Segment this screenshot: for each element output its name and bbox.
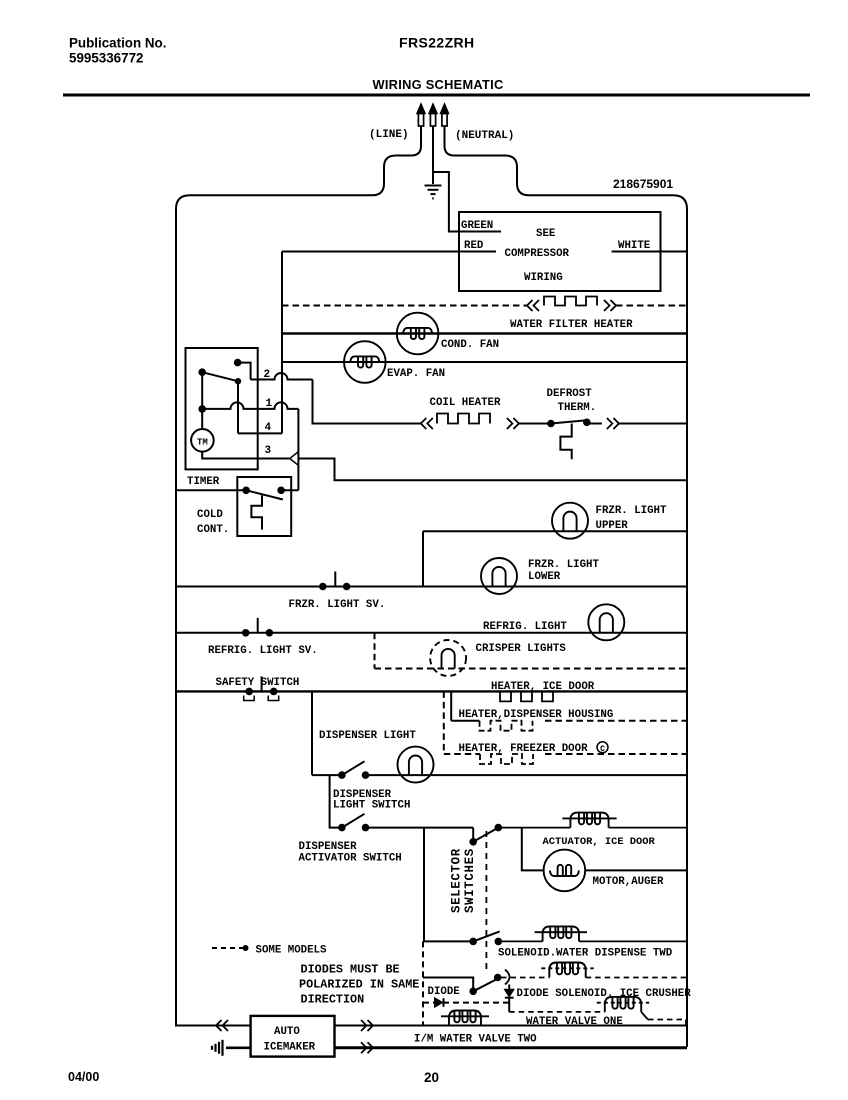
svg-text:ICEMAKER: ICEMAKER [264, 1042, 316, 1054]
wire: branch to selector switch 3 [423, 978, 473, 992]
svg-text:EVAP. FAN: EVAP. FAN [387, 368, 445, 380]
diode: horizontal [435, 998, 442, 1007]
wire: ice crusher row to bus (dashed) [586, 977, 687, 979]
coil: solenoid water dispense [535, 931, 587, 933]
wire: coil heater to defrost thermostat [519, 423, 551, 425]
svg-text:MOTOR,AUGER: MOTOR,AUGER [593, 876, 665, 888]
svg-text:I/M WATER VALVE TWO: I/M WATER VALVE TWO [414, 1034, 537, 1046]
ground symbol [425, 185, 442, 187]
svg-text:WIRING SCHEMATIC: WIRING SCHEMATIC [372, 77, 503, 92]
svg-text:COLD: COLD [197, 509, 223, 521]
timer motor TM [191, 429, 214, 452]
wire: water dispense coil to bus [579, 940, 687, 942]
freezer light switch [319, 583, 327, 591]
lamp: refrigerator light [588, 604, 624, 640]
wire: terminal 1 drop to cold control node [297, 409, 299, 490]
symbol circled C [597, 742, 608, 753]
wire: switch to dispenser light lamp [366, 774, 688, 776]
wire: pivot down to contact 1 [201, 372, 203, 409]
svg-text:COND. FAN: COND. FAN [441, 339, 499, 351]
wire: ice crusher row (dashed) [501, 977, 549, 979]
svg-text:ACTUATOR, ICE DOOR: ACTUATOR, ICE DOOR [543, 836, 656, 848]
safety switch [245, 688, 253, 696]
svg-text:COMPRESSOR: COMPRESSOR [505, 248, 570, 260]
plug left (line) prong [417, 104, 425, 114]
wire: selector feed drop [423, 828, 425, 942]
svg-text:FRZR. LIGHT: FRZR. LIGHT [596, 505, 668, 517]
wire: actuator coil to bus [609, 827, 687, 829]
svg-text:UPPER: UPPER [596, 520, 629, 532]
wire: defrost row to right bus [619, 423, 687, 425]
wire: freezer door heater row start (dashed) [444, 753, 480, 755]
wire: crisper row (dashed) [375, 668, 688, 670]
coil: ice crusher solenoid (dashed) [541, 967, 593, 969]
svg-text:3: 3 [265, 445, 272, 457]
svg-text:AUTO: AUTO [274, 1026, 300, 1038]
cold control bellows step symbol [251, 495, 262, 529]
cold control right contact dot [277, 487, 285, 495]
wire: freezer door row to bus (dashed) [545, 753, 687, 755]
lamp: freezer light upper [552, 503, 588, 539]
wire: motor auger branch [522, 828, 544, 871]
connector << coil heater [421, 418, 427, 429]
dispenser activator switch [338, 824, 346, 832]
lamp: crisper lights (dashed) [430, 640, 466, 676]
wire: left bus corner to icemaker [176, 1012, 251, 1026]
defrost thermostat left dot [547, 420, 555, 428]
svg-text:(NEUTRAL): (NEUTRAL) [455, 130, 514, 142]
svg-text:POLARIZED IN SAME: POLARIZED IN SAME [299, 978, 419, 992]
wire: upper row drop to lower row [422, 531, 424, 586]
wire: water dispense row [424, 940, 473, 942]
wire: line prong lead-in curve [372, 126, 421, 195]
wire: freezer lower light row [176, 586, 687, 588]
motor: evaporator fan [344, 341, 386, 383]
svg-text:DIODES MUST BE: DIODES MUST BE [301, 963, 400, 977]
wire: timer row 2 with hop over bus [251, 373, 313, 380]
svg-text:20: 20 [424, 1070, 439, 1085]
svg-text:TIMER: TIMER [187, 476, 220, 488]
connector >> valve two [361, 1042, 367, 1053]
svg-text:FRS22ZRH: FRS22ZRH [399, 35, 475, 51]
wire: row 3 jog to long return row [298, 459, 687, 481]
wire: timer row 1 with two hops [202, 402, 298, 409]
wire: white to right bus [612, 251, 687, 253]
coil: water valve one (dashed) [597, 1002, 649, 1004]
svg-text:218675901: 218675901 [613, 177, 673, 191]
svg-text:ACTIVATOR SWITCH: ACTIVATOR SWITCH [299, 853, 402, 865]
wire: vertical diode drop to water valve one (dashed) [508, 998, 510, 1012]
svg-text:GREEN: GREEN [461, 220, 493, 232]
wire: condenser fan row [282, 332, 687, 334]
svg-text:CRISPER LIGHTS: CRISPER LIGHTS [476, 643, 567, 655]
svg-text:REFRIG. LIGHT SV.: REFRIG. LIGHT SV. [208, 645, 318, 657]
svg-text:THERM.: THERM. [558, 402, 597, 414]
wire: right bus (neutral side) [686, 208, 688, 1047]
connector >> water filter [604, 300, 610, 311]
cold control box [237, 477, 291, 536]
selector switch 3 (ice crusher) [469, 988, 477, 996]
svg-text:DEFROST: DEFROST [547, 388, 593, 400]
wire: water valve one row (dashed) [509, 1011, 605, 1013]
svg-text:HEATER,DISPENSER HOUSING: HEATER,DISPENSER HOUSING [459, 709, 614, 721]
header rule [63, 94, 810, 97]
defrost bimetal step symbol [560, 424, 571, 460]
selector switch 2 (water dispense) [469, 938, 477, 946]
wire: left bus (line side) [175, 208, 177, 1026]
svg-text:C: C [600, 745, 605, 754]
wire: green branch to compressor [433, 172, 460, 232]
svg-text:WATER FILTER HEATER: WATER FILTER HEATER [510, 319, 633, 331]
resistor: heater ice door (teeth below row) [500, 691, 553, 701]
svg-text:LOWER: LOWER [528, 571, 561, 583]
svg-text:LIGHT SWITCH: LIGHT SWITCH [333, 800, 410, 812]
wire: drop to freezer door heater (dashed) [443, 691, 445, 754]
svg-text:Publication No.: Publication No. [69, 36, 166, 51]
wire: timer row 4 to bus [238, 432, 282, 434]
resistor: heater dispenser housing [480, 721, 533, 731]
svg-text:(LINE): (LINE) [369, 129, 409, 141]
svg-text:5995336772: 5995336772 [69, 51, 143, 66]
svg-text:DISPENSER: DISPENSER [299, 841, 358, 853]
svg-text:SAFETY SWITCH: SAFETY SWITCH [216, 677, 300, 689]
resistor: heater freezer door [480, 754, 533, 764]
plug middle ground prong [429, 104, 437, 114]
diode: vertical for ice crusher [505, 990, 514, 997]
wire: ground prong lead down [432, 126, 434, 184]
wire: neutral prong lead-in curve [445, 126, 530, 195]
dispenser light switch [338, 771, 346, 779]
svg-text:SEE: SEE [536, 228, 556, 240]
timer switch arm pivot dot [198, 368, 206, 376]
wire: contact 1 down to timer motor [201, 409, 203, 429]
wire: to dispenser light switch [312, 774, 342, 776]
svg-text:COIL HEATER: COIL HEATER [430, 397, 502, 409]
defrost thermostat right dot [583, 419, 591, 427]
wire: defrost to connector [587, 423, 602, 425]
connector << water filter [527, 300, 533, 311]
timer contact 2 dot [234, 359, 242, 367]
svg-text:SOME MODELS: SOME MODELS [256, 945, 328, 957]
wire: main outline top edge right of hump [529, 195, 687, 209]
wire: red feed [282, 251, 496, 253]
cold control switch arm [246, 490, 283, 499]
wire: drop from safety row to dispenser switches [311, 691, 313, 775]
wire: drop to dispenser housing heater [450, 691, 452, 720]
motor: auger [544, 850, 586, 892]
connector < on row 3 [290, 452, 298, 465]
wire: diode row (dashed) [423, 1002, 509, 1004]
connector arc on crusher row [505, 970, 510, 985]
selector switch 1 (ice door actuator) [469, 838, 477, 846]
wire: selector dashed drop to icemaker row [422, 941, 424, 1025]
connector >> defrost [607, 418, 613, 429]
wire: switch to water dispense coil [498, 940, 542, 942]
wire: selector mechanical link (dashed) [485, 831, 487, 974]
lamp: dispenser light [398, 747, 434, 783]
wire: feed bus down from red [281, 252, 283, 434]
wire: actuator coil row [498, 827, 570, 829]
plug right (neutral) prong [441, 104, 449, 114]
defrost thermostat arm [551, 420, 587, 423]
timer switch arm [202, 372, 238, 381]
refrigerator light switch [242, 629, 250, 637]
resistor: coil heater [437, 414, 490, 424]
wire: dispenser housing heater row start [451, 720, 479, 722]
coil: actuator ice door [562, 817, 616, 819]
wire: dispenser housing row to bus (dashed) [545, 720, 687, 722]
wire: safety switch row [176, 690, 687, 692]
coil: I/M water valve (on row one) [441, 1015, 489, 1017]
svg-text:DIODE SOLENOID. ICE CRUSHER: DIODE SOLENOID. ICE CRUSHER [517, 988, 692, 1000]
svg-text:FRZR. LIGHT: FRZR. LIGHT [528, 559, 600, 571]
compressor box SEE COMPRESSOR WIRING [459, 212, 661, 291]
wire: water valve one to bus (dashed) [641, 1012, 648, 1020]
wire: activator row bend to selector contact [472, 828, 474, 842]
wire: main outline top edge left of hump [176, 195, 372, 209]
svg-text:DIRECTION: DIRECTION [301, 993, 365, 1007]
svg-text:DISPENSER LIGHT: DISPENSER LIGHT [319, 730, 416, 742]
wire: icemaker output row one [335, 1025, 688, 1027]
resistor: water filter heater [544, 297, 597, 306]
svg-text:REFRIG. LIGHT: REFRIG. LIGHT [483, 621, 567, 633]
wire: water filter heater row left segment (dashed) [282, 305, 527, 307]
wire: crisper drop (dashed) [374, 633, 376, 669]
wire: freezer upper light row [423, 530, 687, 532]
svg-text:TM: TM [197, 438, 208, 448]
wire: evaporator fan row [282, 361, 687, 363]
motor: condenser fan [397, 313, 439, 355]
wire: motor auger to bus [585, 869, 687, 871]
icemaker ground terminal symbol [226, 1047, 251, 1050]
wire: drop to activator switch [330, 775, 342, 828]
svg-text:SELECTOR: SELECTOR [450, 848, 464, 913]
wire: cold control output [281, 489, 298, 491]
wire: water filter heater row right segment (dashed) [616, 305, 687, 307]
svg-text:04/00: 04/00 [68, 1070, 99, 1084]
svg-text:CONT.: CONT. [197, 524, 229, 536]
svg-text:SOLENOID.WATER DISPENSE TWD: SOLENOID.WATER DISPENSE TWD [498, 948, 673, 960]
legend dashed sample [212, 947, 244, 949]
wire: left bus to cold control [176, 489, 246, 491]
wire: refrigerator light row [176, 632, 687, 634]
svg-text:4: 4 [265, 422, 272, 434]
svg-text:WIRING: WIRING [524, 272, 563, 284]
svg-text:WHITE: WHITE [618, 240, 651, 252]
lamp: freezer light lower [481, 558, 517, 594]
wire: timer motor to row 3 [202, 452, 289, 459]
wire: arm tip down to row 4 [237, 381, 239, 433]
timer contact 1 dot [198, 405, 206, 413]
svg-text:FRZR. LIGHT SV.: FRZR. LIGHT SV. [289, 599, 386, 611]
auto icemaker box [251, 1016, 335, 1057]
svg-text:DIODE: DIODE [428, 986, 461, 998]
connector >> valve one [361, 1020, 367, 1031]
connector >> coil heater [507, 418, 513, 429]
svg-text:RED: RED [464, 240, 484, 252]
wire: activator row [366, 827, 474, 829]
wire: icemaker output row two [335, 1046, 688, 1049]
timer box [186, 348, 258, 469]
cold control left contact dot [242, 487, 250, 495]
wire: green underline [460, 231, 501, 233]
wire: row 2 down to coil heater row [313, 380, 421, 424]
connector << icemaker feed [216, 1020, 222, 1031]
wire: contact 2 to row 2 [238, 363, 251, 380]
svg-text:SWITCHES: SWITCHES [463, 848, 477, 913]
